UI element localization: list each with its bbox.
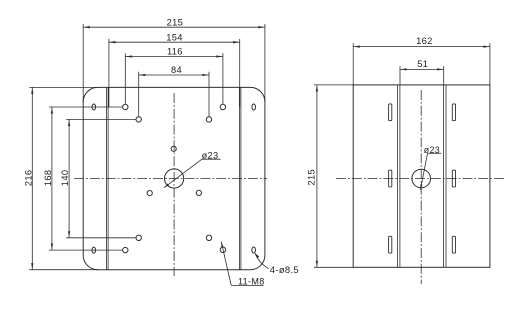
hole row4 right — [220, 247, 225, 252]
hole row1 left — [123, 104, 128, 109]
svg-text:168: 168 — [43, 170, 53, 187]
right bend line pair — [239, 87, 241, 269]
svg-text:84: 84 — [171, 65, 182, 75]
leader ø23 (front view) — [164, 150, 221, 187]
svg-text:4-ø8.5: 4-ø8.5 — [270, 264, 299, 275]
dim 51 — [400, 59, 444, 71]
svg-text:ø23: ø23 — [202, 150, 219, 160]
dim 140 — [60, 119, 70, 237]
svg-text:215: 215 — [307, 169, 317, 186]
small hole top of center — [171, 146, 176, 151]
dim 215 extension lines — [83, 24, 265, 103]
center hole ø23 (front view) — [165, 169, 184, 188]
horizontal centerline (front view) — [74, 178, 267, 180]
side view outline — [353, 85, 490, 267]
hole row2 right — [206, 117, 211, 122]
slot top-right — [252, 104, 256, 110]
svg-text:116: 116 — [167, 47, 183, 57]
row line y=107 left — [49, 106, 123, 108]
dim 215 (side view) — [307, 85, 318, 267]
svg-text:154: 154 — [166, 32, 183, 42]
dim 116 — [125, 47, 223, 58]
vertical centerline (front view) — [173, 93, 175, 276]
row line y=250.1 left — [49, 249, 123, 251]
dim 216 extension lines — [29, 87, 98, 269]
svg-text:162: 162 — [416, 36, 433, 46]
dim 162 — [353, 36, 490, 48]
row line y=119.4 left — [66, 118, 136, 120]
dim 51 extension lines — [400, 66, 444, 85]
side view slot top-right — [452, 104, 455, 121]
side view slot bottom-right — [452, 236, 455, 253]
dim 84 — [139, 65, 209, 76]
slot top-left — [92, 104, 96, 110]
side view slot top-left — [389, 104, 392, 121]
slot bottom-right — [252, 247, 256, 253]
dim 84 extension lines — [139, 72, 209, 117]
svg-text:216: 216 — [24, 170, 34, 187]
svg-text:215: 215 — [167, 17, 184, 27]
dim 154 extension lines — [109, 39, 240, 107]
hole row2 left — [136, 117, 141, 122]
hole row3 right — [206, 235, 211, 240]
dim 154 — [109, 32, 240, 43]
row line y=237.8 left — [66, 237, 136, 239]
hole row1 right — [220, 104, 225, 109]
side view right bend pair — [443, 85, 446, 267]
dim 215 (side view) extension lines — [314, 85, 353, 267]
leader 11-M8 — [221, 242, 264, 287]
hole row4 left — [123, 247, 128, 252]
dim 168 — [43, 107, 53, 250]
small hole lower-right of center — [196, 190, 201, 195]
dim 162 extension lines — [353, 43, 490, 85]
plate outline (front view) — [83, 87, 265, 269]
slot bottom-left — [92, 247, 96, 253]
dim 215 — [83, 17, 265, 28]
hole row3 left — [136, 235, 141, 240]
center hole ø23 (side view) — [412, 169, 431, 188]
side view slot mid-left — [389, 170, 392, 187]
svg-text:ø23: ø23 — [424, 145, 440, 155]
leader 4-ø8.5 — [255, 253, 299, 275]
side view slot mid-right — [452, 170, 455, 187]
left bend line pair — [107, 87, 109, 269]
svg-text:11-M8: 11-M8 — [238, 276, 265, 286]
svg-text:140: 140 — [60, 170, 70, 187]
leader ø23 (side view) — [420, 145, 441, 190]
small hole lower-left of center — [147, 191, 152, 196]
vertical centerline (side view) — [420, 90, 422, 284]
dim 116 extension lines — [125, 53, 223, 104]
horizontal centerline (side view) — [336, 178, 505, 180]
side view slot bottom-left — [389, 236, 392, 253]
side view left bend pair — [398, 85, 400, 267]
dim 216 — [24, 87, 34, 269]
svg-text:51: 51 — [417, 59, 428, 69]
